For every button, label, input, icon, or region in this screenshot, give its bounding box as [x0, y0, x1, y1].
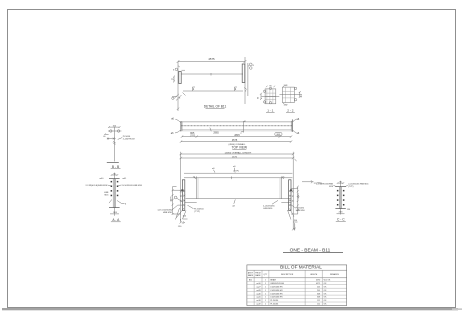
B-B bottom flange bar: [107, 162, 119, 164]
B-B leader text: [118, 136, 136, 141]
C-C bolts: [337, 190, 345, 206]
detail left small vertical dim: [171, 76, 175, 83]
svg-text:348: 348: [317, 297, 320, 299]
svg-text:(TYP): (TYP): [190, 135, 196, 137]
C-C label: [336, 217, 346, 221]
detail dim line 4575: [177, 57, 247, 63]
detail section flag 1 left: [193, 87, 196, 91]
elevation right plate bolts: [289, 190, 294, 206]
elevation left extension line: [180, 152, 182, 224]
svg-text:1: 1: [265, 290, 266, 292]
C-C top dim: [337, 181, 344, 184]
A-A bottom flange: [109, 207, 120, 209]
top view section cut mark 2: [240, 121, 246, 136]
detail right extension line: [244, 57, 246, 104]
elevation right PL text: [290, 204, 305, 212]
elevation beam bottom flange: [186, 198, 291, 200]
section 2-2 bolts: [294, 87, 296, 101]
stray arrow mark above title: [294, 224, 296, 231]
svg-text:aa40: aa40: [256, 293, 260, 295]
elevation center bottom mark: [232, 199, 235, 207]
elevation top flange inner line: [184, 176, 292, 179]
BOM title row: [247, 265, 347, 271]
top view overall text: [228, 143, 246, 146]
section 1-1 bolts: [263, 87, 271, 104]
svg-text:(TYP): (TYP): [348, 186, 354, 188]
svg-text:W-1 OK: W-1 OK: [324, 280, 331, 282]
detail bottom-left weld cluster: [172, 93, 186, 101]
svg-text:HSB M16: HSB M16: [263, 208, 273, 210]
svg-text:UB305X165X40: UB305X165X40: [270, 283, 284, 285]
elevation left dim chain: [171, 187, 184, 216]
B-B top dim: [108, 125, 121, 128]
C-C right leader text: [344, 183, 369, 187]
B-B left dim: [103, 133, 108, 138]
C-C web: [339, 187, 341, 209]
svg-text:4@75: 4@75: [171, 196, 173, 201]
svg-text:HSB M16: HSB M16: [296, 210, 306, 212]
svg-text:201: 201: [317, 290, 320, 292]
A-A web: [113, 179, 115, 208]
section 2-2 right dim: [299, 91, 303, 98]
svg-text:aa18: aa18: [256, 300, 260, 302]
detail left weld circle symbol: [173, 66, 185, 72]
C-C bottom dim 203: [337, 209, 352, 214]
svg-text:(TYP): (TYP): [234, 171, 240, 173]
svg-text:L50X50X6 HR: L50X50X6 HR: [270, 297, 283, 299]
top view dim text 805 right boxed: [275, 133, 282, 136]
svg-text:DESCRIPTION: DESCRIPTION: [281, 274, 294, 276]
section 2-2 corner marks: [283, 85, 288, 107]
svg-text:MARK: MARK: [255, 274, 261, 277]
A-A left leader text: [86, 185, 111, 187]
svg-text:REMARKS: REMARKS: [330, 273, 340, 276]
svg-text:2965: 2965: [213, 132, 219, 135]
svg-text:B11: B11: [249, 280, 252, 282]
section 1-1 left dim: [258, 93, 262, 100]
svg-text:112: 112: [317, 304, 320, 306]
svg-text:aa41: aa41: [256, 297, 260, 299]
elevation left stiffener angle: [193, 177, 198, 199]
A-A right leader text: [118, 185, 143, 187]
elevation bottom flange inner line right: [281, 201, 291, 203]
top view weld flag upper-left: [171, 117, 181, 122]
elevation beam top flange: [184, 172, 292, 174]
top view title: [232, 146, 247, 150]
top view center dashed line: [181, 125, 292, 127]
C-C center line: [340, 181, 342, 215]
C-C top flange: [335, 186, 345, 188]
A-A center line: [113, 173, 115, 216]
top view weld flag lower-left: [171, 130, 181, 135]
BOM column lines: [254, 270, 322, 305]
svg-text:DETAIL OF B11: DETAIL OF B11: [204, 104, 227, 108]
svg-text:1: 1: [265, 293, 266, 295]
sheet bottom shadow: [2, 308, 462, 310]
section 2-2 label: [286, 109, 295, 113]
A-A label: [111, 218, 121, 222]
svg-text:BILL OF MATERIAL: BILL OF MATERIAL: [280, 265, 322, 270]
A-A top dim: [111, 173, 119, 176]
svg-text:112: 112: [317, 300, 320, 302]
detail right end plate: [242, 64, 245, 83]
svg-text:1: 1: [265, 304, 266, 306]
svg-text:PL150X6: PL150X6: [270, 304, 278, 306]
svg-text:2 - 2: 2 - 2: [287, 109, 293, 113]
elevation right level mark: [302, 180, 322, 184]
svg-text:2-L50X50X6 HSB M16: 2-L50X50X6 HSB M16: [122, 185, 143, 187]
top view section cut mark 1: [210, 128, 212, 132]
svg-text:4575: 4575: [208, 57, 215, 61]
top view weld flag lower-right: [293, 130, 300, 135]
section 1-1 label: [266, 108, 275, 112]
svg-text:1: 1: [265, 283, 266, 285]
detail beam bottom line: [183, 90, 243, 92]
elevation left plate bolts: [180, 190, 185, 206]
detail right inner vertical: [247, 63, 249, 96]
svg-text:1: 1: [265, 280, 266, 282]
svg-text:PL150X6: PL150X6: [270, 300, 278, 302]
A-A bolts: [111, 181, 119, 196]
svg-text:4575: 4575: [232, 139, 238, 142]
A-A corner labels: [100, 178, 128, 180]
detail section flag 2 left: [235, 87, 238, 91]
BOM row lines: [247, 281, 347, 302]
svg-text:HSB M16: HSB M16: [163, 212, 173, 214]
A-A bottom dim 203: [110, 212, 119, 214]
BOM outer frame: [247, 265, 347, 306]
detail bottom arrow of extension: [177, 108, 179, 110]
detail right weld circles: [248, 63, 255, 69]
top view left end plate: [181, 121, 182, 132]
svg-text:A - A: A - A: [112, 218, 120, 222]
detail title DETAIL OF B11: [204, 104, 227, 108]
BOM data rows: [249, 279, 331, 306]
svg-text:C - C: C - C: [337, 217, 345, 221]
section 1-1 body: [262, 89, 280, 104]
top view dim line 2: [180, 139, 292, 143]
svg-text:L50X50X6 HR: L50X50X6 HR: [270, 290, 283, 292]
top view beam outline: [181, 122, 292, 131]
top view dim line 1: [181, 134, 292, 138]
svg-text:348: 348: [317, 293, 320, 295]
elevation right dim chain: [290, 186, 300, 214]
elevation left leader text: [158, 205, 183, 214]
elevation bottom flange inner line left: [185, 201, 197, 203]
svg-text:B - B: B - B: [112, 165, 120, 169]
svg-text:4590: 4590: [316, 280, 320, 282]
section 2-2 body: [280, 87, 303, 103]
top view dim text 805 left: [190, 132, 196, 137]
svg-text:(TYP): (TYP): [194, 211, 200, 213]
svg-text:2-13Ø HOLE: 2-13Ø HOLE: [123, 138, 136, 140]
svg-text:1: 1: [265, 286, 266, 288]
elevation right leader text 2-L50: [263, 200, 278, 210]
B-B label: [111, 165, 121, 169]
B-B center line: [113, 127, 115, 161]
A-A left weld mark: [109, 200, 112, 204]
B-B plate cross: [107, 138, 116, 140]
svg-text:L50X50X6 HR: L50X50X6 HR: [270, 286, 283, 288]
elevation left end bottom arrow pair: [178, 221, 185, 228]
A-A left text 2: [104, 192, 109, 196]
svg-text:BEAM: BEAM: [270, 279, 276, 282]
svg-text:(4590) OVERALL LENGTH: (4590) OVERALL LENGTH: [225, 151, 252, 154]
svg-text:4575: 4575: [316, 283, 320, 285]
top view dim text mid: [213, 132, 219, 135]
drawing title ONE - BEAM - B11: [283, 248, 343, 254]
detail left end plate: [179, 72, 181, 84]
svg-text:1: 1: [265, 297, 266, 299]
A-A top flange: [109, 178, 120, 180]
elevation center top marks: [212, 166, 239, 173]
elevation overall dim line: [180, 151, 295, 155]
elevation right extension line: [292, 152, 295, 231]
svg-text:aa27: aa27: [256, 286, 260, 288]
svg-text:aa10: aa10: [256, 283, 260, 285]
detail beam top flange: [181, 73, 243, 76]
B-B bolt circles: [108, 130, 121, 133]
svg-text:201: 201: [317, 286, 320, 288]
elevation right end plate: [289, 180, 291, 211]
elevation left bottom weld leaders: [176, 208, 188, 225]
svg-text:L50X50X6 HR: L50X50X6 HR: [270, 293, 283, 295]
detail left extension line: [177, 62, 179, 112]
elevation left PL text: [188, 205, 205, 213]
detail right end tick: [244, 88, 247, 93]
svg-text:75: 75: [282, 177, 284, 179]
B-B small marks below: [113, 141, 116, 144]
svg-text:MARK: MARK: [248, 274, 254, 277]
section 1-1 top ticks: [266, 86, 275, 88]
C-C left leader text: [316, 183, 337, 187]
svg-text:2-17Ø(HOLE)/HSB M16: 2-17Ø(HOLE)/HSB M16: [86, 185, 108, 187]
C-C bottom flange: [335, 208, 345, 210]
elevation left end plate: [182, 180, 184, 211]
elevation left weld circle: [174, 196, 183, 202]
svg-text:1 - 1: 1 - 1: [267, 108, 273, 112]
svg-text:13Ø: 13Ø: [284, 85, 288, 87]
elevation right bottom weld leaders: [288, 209, 298, 223]
svg-text:aa19: aa19: [256, 304, 260, 306]
A-A right weld flag: [117, 201, 127, 206]
svg-text:4@75: 4@75: [298, 193, 300, 198]
svg-text:aa28: aa28: [256, 290, 260, 292]
svg-text:TOP VIEW: TOP VIEW: [232, 146, 247, 150]
svg-text:75: 75: [193, 177, 195, 179]
svg-text:1: 1: [265, 300, 266, 302]
top view weld flag upper-right: [293, 118, 300, 122]
top view right end plate: [291, 119, 292, 131]
svg-text:LENGTH: LENGTH: [310, 274, 318, 276]
svg-text:13Ø: 13Ø: [284, 105, 288, 107]
BOM header row: [247, 272, 347, 278]
elevation dim line 4575: [180, 156, 297, 161]
elevation right stiffener angle: [280, 177, 284, 199]
svg-text:4575: 4575: [232, 156, 238, 158]
